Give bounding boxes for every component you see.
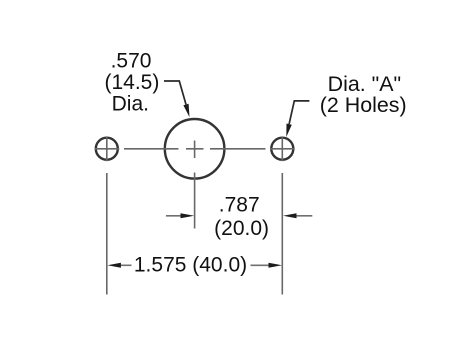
svg-text:(2 Holes): (2 Holes) — [320, 93, 407, 117]
svg-text:Dia.: Dia. — [112, 92, 149, 115]
svg-text:(20.0): (20.0) — [214, 217, 269, 240]
svg-text:1.575 (40.0): 1.575 (40.0) — [134, 253, 247, 276]
svg-text:(14.5): (14.5) — [104, 71, 159, 94]
svg-text:.787: .787 — [219, 194, 260, 217]
svg-text:.570: .570 — [111, 50, 152, 73]
